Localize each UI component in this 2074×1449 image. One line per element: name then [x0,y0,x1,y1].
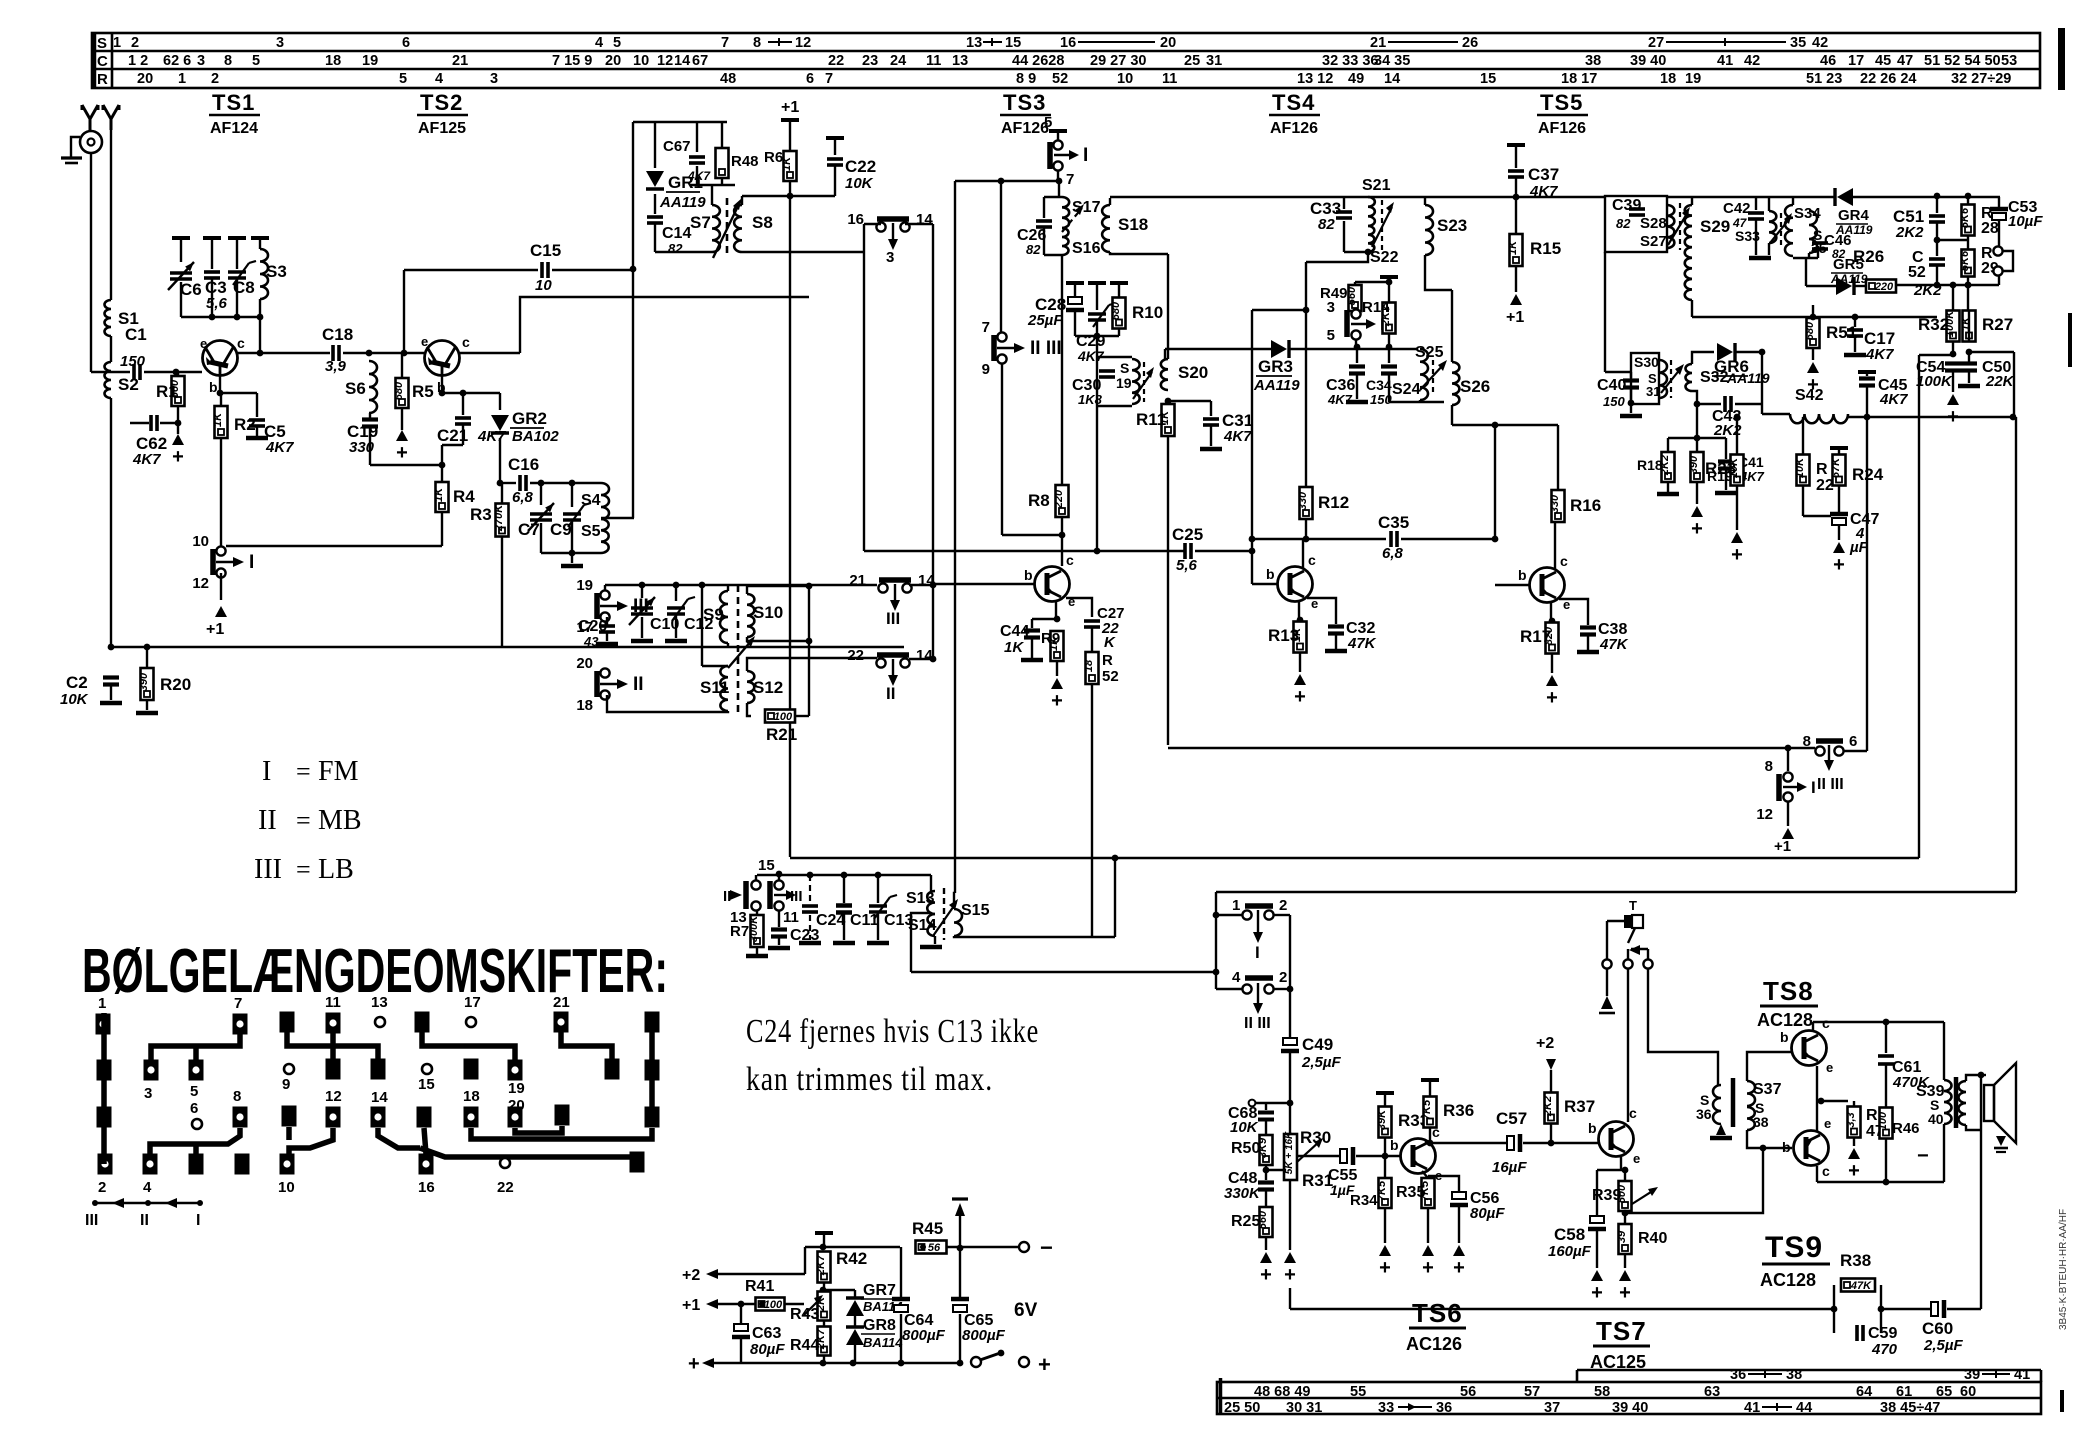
svg-text:+: + [1038,1352,1051,1377]
svg-text:42: 42 [1744,53,1760,69]
wire TS1 collector to C18 [237,352,330,354]
wire y539 left [1252,538,1386,540]
svg-text:S22: S22 [1370,249,1399,266]
capacitor C30 and coil S19 box [1097,356,1132,358]
wire GR2 top [499,393,501,410]
wire S1-S2 [110,336,112,362]
svg-text:S24: S24 [1392,381,1421,398]
switch contact 10/12 I [210,549,216,575]
wire wiper to C55 [1297,1155,1342,1157]
svg-text:b: b [1518,567,1527,583]
svg-text:38: 38 [1585,53,1601,69]
svg-text:S13: S13 [906,890,935,907]
wire S9 bottom [727,643,729,647]
wafer circle 17 [466,1017,476,1027]
wafer pad 2 [98,1154,113,1175]
wire sw9 down [1001,364,1003,535]
trimmer capacitor C8 [228,236,246,240]
wire box left [1918,355,1920,417]
svg-text:67: 67 [692,53,708,69]
svg-text:57: 57 [1524,1384,1540,1400]
svg-text:S18: S18 [1118,215,1148,234]
top table S row dashes [768,41,1786,43]
wire C5 bottom [256,426,258,436]
wire sw14 right [905,223,933,225]
coil S22 [1368,226,1374,252]
wire R2 down to switch 10 [220,438,222,546]
coil S6 [369,361,377,413]
svg-text:c: c [1629,1105,1637,1121]
svg-text:S33: S33 [1735,228,1760,244]
svg-text:AC128: AC128 [1757,1010,1813,1030]
node R4-C19 [439,462,446,469]
trimmer capacitor C29 [1088,281,1106,285]
wire GR2 node to C16 [500,482,516,484]
svg-text:32 27÷29: 32 27÷29 [1951,71,2011,87]
resistor R49 [1346,285,1362,311]
wire top rail [805,1246,900,1248]
svg-text:5,6: 5,6 [1176,557,1198,574]
wafer wire col1 [101,1013,107,1164]
svg-text:R1: R1 [156,382,178,401]
svg-text:5K + 16K: 5K + 16K [1284,1131,1295,1174]
svg-text:b: b [1780,1029,1789,1045]
page edge mark right [2058,28,2065,90]
wire to GR5 [1806,285,1836,287]
resistor R25 [1257,1207,1273,1237]
ground below R13 [1294,674,1306,685]
transistor TS1 [203,341,238,376]
svg-text:I: I [196,1212,200,1229]
svg-text:64: 64 [1856,1384,1872,1400]
node R20 top [144,644,151,651]
capacitor C49 electrolytic [1283,1038,1297,1045]
svg-text:18: 18 [463,1088,480,1105]
svg-text:S: S [97,35,107,52]
svg-text:60: 60 [1960,1384,1976,1400]
svg-text:5K6: 5K6 [1959,250,1971,271]
wire to C40 col [1605,371,1631,373]
tuning arrow S17 [1062,208,1082,232]
wafer pad 21 [554,1012,569,1033]
resistor R15 [1507,234,1523,266]
svg-text:15: 15 [1005,35,1021,51]
capacitor C51 [1936,197,1938,213]
wire S26 bottom [1451,405,1453,425]
node C21 top [460,390,467,397]
wire x1290 down [1289,915,1291,1038]
svg-text:b: b [1024,567,1033,583]
svg-text:S26: S26 [1460,377,1490,396]
wire S4-S5 tap [601,517,634,519]
wire R5 node up [403,270,405,353]
svg-text:µF: µF [1849,539,1869,556]
node R37 TS7 base [1548,1140,1555,1147]
svg-text:17: 17 [1848,53,1864,69]
svg-text:6: 6 [190,1100,198,1117]
wire S19 box to bus [1096,406,1098,551]
switch contact III [767,881,773,909]
svg-text:+2: +2 [682,1267,700,1284]
svg-text:33: 33 [1378,1400,1394,1416]
svg-text:7: 7 [234,995,242,1012]
svg-text:LB: LB [318,854,354,885]
resistor R38 [1841,1279,1875,1293]
svg-text:C60: C60 [1922,1319,1953,1338]
svg-text:14: 14 [916,211,933,228]
svg-text:330: 330 [1297,491,1309,510]
wire C1 to TS1 [144,371,202,373]
transformer core S7-S8 dashed [726,198,729,258]
wire R39 feedback to S38 [1625,1148,1763,1213]
svg-text:R27: R27 [1982,315,2013,334]
wire C15 to S7 block [552,269,633,271]
svg-text:1 2: 1 2 [128,53,148,69]
wire S8 top to R6 col [742,195,790,197]
svg-text:61: 61 [1896,1384,1912,1400]
svg-text:R12: R12 [1318,493,1349,512]
wire x1115 down [1114,858,1116,937]
svg-text:56: 56 [1460,1384,1476,1400]
wire to sw1 [1216,914,1242,916]
svg-text:S4: S4 [581,492,601,509]
capacitor C2 [103,678,119,685]
wire R4 to switch line [226,545,442,547]
capacitor C22 [826,136,844,140]
resistor R51 [1812,305,1814,317]
wafer wire right col [649,1031,655,1110]
wire TS2 base stem [441,375,443,393]
wafer pad row3 e [417,1107,432,1128]
wire down to GR5 [1805,258,1807,286]
svg-text:C39: C39 [1612,197,1641,214]
wire tank bottom tie [1344,251,1368,253]
ground +1 below sw12 [1782,828,1794,839]
wire R15 down [1515,266,1517,292]
coil S29 [1691,197,1693,205]
switch contact 15/13 II [743,881,749,909]
wafer pad right row2 [645,1060,660,1081]
capacitor C24 dashed [809,875,811,903]
svg-text:C37: C37 [1528,165,1559,184]
svg-text:+: + [1294,686,1306,708]
svg-text:e: e [1068,594,1075,609]
top reference table frame [92,33,2040,88]
svg-text:10µF: 10µF [2008,213,2043,230]
svg-text:51 52 54 50: 51 52 54 50 [1924,53,2001,69]
svg-text:55: 55 [1350,1384,1366,1400]
svg-text:25µF: 25µF [1027,312,1063,329]
svg-text:C24 fjernes hvis C13 ikke: C24 fjernes hvis C13 ikke [746,1013,1039,1050]
svg-text:b: b [209,379,218,395]
wire T box left [1607,920,1624,922]
switch contact 19/17 III [594,593,600,619]
svg-text:8: 8 [753,35,761,51]
wire S26 to R16 [1452,424,1558,426]
svg-text:R44: R44 [790,1337,819,1354]
wire y972 to switch block [911,971,1216,973]
wire R1 bottom [177,406,179,424]
wire to GR3 [1165,348,1271,350]
svg-text:20: 20 [1160,35,1176,51]
svg-text:19: 19 [1685,71,1701,87]
svg-text:38: 38 [1786,1367,1802,1383]
switch contact 8/6 II III [1816,738,1843,744]
wire C21 bottom [462,424,464,445]
wire C18 to TS2 [343,352,425,354]
wire R13 down [1299,653,1301,672]
wire to ground [177,423,179,434]
svg-text:680: 680 [393,381,405,400]
svg-text:R13: R13 [1268,626,1299,645]
wire sw2 right [1274,914,1290,916]
svg-text:−: − [1917,1145,1929,1167]
svg-text:36: 36 [1696,1106,1712,1122]
svg-text:80µF: 80µF [750,1341,785,1358]
svg-text:4K7: 4K7 [265,439,294,456]
capacitor C32 [1328,627,1344,634]
svg-text:+: + [688,1353,700,1375]
coil S5 [601,519,609,553]
svg-text:R37: R37 [1564,1097,1595,1116]
wafer pad right top [645,1012,660,1033]
svg-text:21: 21 [553,994,570,1011]
diode GR4 AA119 [1837,188,1853,206]
wire R4 top [441,445,443,483]
node sw8 tap [1785,745,1792,752]
svg-text:C20: C20 [578,618,607,635]
svg-text:II: II [140,1212,149,1229]
svg-text:28: 28 [1981,220,1999,237]
svg-text:S: S [1120,360,1129,376]
wafer wire 18 to right col [471,1128,652,1139]
capacitor C21 [455,418,471,424]
svg-text:R: R [1816,461,1828,478]
svg-text:S3: S3 [266,262,287,281]
wire tank bottom [541,552,601,554]
wire to TS5 base [1494,425,1496,539]
svg-text:+: + [172,446,184,468]
ground below R34 [1379,1245,1391,1256]
svg-text:7K5: 7K5 [1376,1180,1388,1201]
svg-text:AF126: AF126 [1538,120,1586,137]
resistor R6 [781,151,797,181]
svg-text:c: c [1066,552,1074,568]
wire R14 top [1388,282,1390,302]
wafer pad 14 [371,1107,386,1128]
svg-text:220: 220 [1053,489,1065,509]
svg-text:100: 100 [764,1299,783,1311]
supply T-bar [815,1231,833,1235]
svg-text:58: 58 [1594,1384,1610,1400]
wire S12 bottom [747,703,751,716]
wafer pad col1 row2 [97,1060,112,1081]
wire tank to R12 col [1306,252,1368,262]
svg-text:43: 43 [583,634,599,649]
wire C37 to R15 [1515,178,1517,234]
node x633-C15 [630,266,637,273]
antenna symbol 2 [103,105,119,130]
transistor TS8 [1792,1031,1827,1066]
svg-text:20: 20 [576,655,593,672]
svg-text:48 68 49: 48 68 49 [1254,1384,1310,1400]
ground below R23 [1731,532,1743,543]
ground below R15 [1510,294,1522,305]
wire tank bottom tie [181,316,260,318]
wire R12 bottom [1305,519,1307,539]
capacitor C31 [1203,419,1219,425]
svg-text:I: I [249,552,254,573]
resistor R28 [1959,205,1975,236]
svg-text:R40: R40 [1638,1230,1667,1247]
resistor R46 [1877,1108,1893,1139]
svg-text:31: 31 [1646,384,1660,399]
wire C5 top [256,393,258,417]
svg-text:R45: R45 [912,1219,943,1238]
svg-text:R25: R25 [1231,1213,1260,1230]
node TS3 top [1056,178,1063,185]
wafer circle 6 [192,1119,202,1129]
wire C62 right [160,422,178,424]
capacitor C5 [249,420,265,426]
svg-text:III: III [254,854,282,885]
svg-text:MB: MB [318,805,362,836]
wire x1001 down to sw [1000,181,1002,333]
wire box down to S30 [1604,252,1606,372]
svg-text:21: 21 [452,53,468,69]
node S6 top [366,350,373,357]
wire y892 long [1216,891,2016,893]
wire +1 to R6 [789,120,791,151]
capacitor C60 electrolytic [1931,1302,1938,1316]
wafer pad row3 g [555,1105,570,1126]
wire TS4 collector stem [1302,539,1304,568]
svg-text:S6: S6 [345,379,366,398]
svg-text:680: 680 [1804,321,1816,340]
svg-text:1: 1 [1232,897,1240,914]
wafer pad 19 [508,1060,523,1081]
wafer pad 16 [419,1154,434,1175]
svg-text:12: 12 [325,1088,342,1105]
chassis ground speaker [1996,1136,2006,1146]
svg-text:18: 18 [576,697,593,714]
svg-text:6,8: 6,8 [1382,545,1404,562]
svg-text:2K2: 2K2 [1542,1096,1554,1117]
svg-text:12: 12 [795,35,811,51]
ground bar C5 [246,436,268,441]
svg-text:I: I [262,756,271,787]
svg-text:S27: S27 [1640,233,1667,250]
capacitor C11 [843,875,845,903]
node R1-C62 [175,420,182,427]
svg-text:e: e [421,334,428,349]
coil S10 [747,594,754,637]
coil S16 [1062,228,1069,255]
svg-text:e: e [200,336,207,351]
svg-text:2,5µF: 2,5µF [1923,1337,1963,1354]
svg-text:16: 16 [847,211,864,228]
svg-text:41: 41 [1744,1400,1760,1416]
wire TS3 emitter stem [1055,600,1057,619]
svg-text:+: + [1422,1257,1434,1279]
svg-text:S23: S23 [1437,216,1467,235]
svg-text:AF124: AF124 [210,120,258,137]
box S30 S31 [1631,353,1659,404]
svg-text:7: 7 [825,71,833,87]
wire TS4 emitter stem [1298,600,1300,620]
svg-text:+1: +1 [682,1297,700,1314]
svg-text:42: 42 [1812,35,1828,51]
capacitor C59 [1857,1325,1863,1341]
svg-text:6,8: 6,8 [512,489,534,506]
svg-text:C: C [97,53,108,70]
capacitor C47 electrolytic [1830,512,1848,517]
wafer pad col12 row2 [371,1059,386,1080]
wire sw6 up to bus [1866,417,1868,751]
ground bar S36 [1710,1136,1732,1141]
svg-text:12: 12 [1756,806,1773,823]
wire net14 vertical [932,224,934,659]
svg-text:10: 10 [278,1179,295,1196]
trimmer capacitor C12 [673,582,680,589]
wire TS6 collector bus [1430,1142,1509,1144]
svg-text:C40: C40 [1597,377,1626,394]
svg-text:51 23: 51 23 [1806,71,1842,87]
svg-text:GR8: GR8 [863,1317,896,1334]
transistor TS3 [1035,567,1070,602]
coil S26 [1452,362,1459,405]
svg-text:C2: C2 [66,673,88,692]
wire C25 bus left [864,550,1184,552]
svg-text:II: II [258,805,277,836]
node TS2 base [439,390,446,397]
svg-text:c: c [462,334,470,350]
svg-text:18 17: 18 17 [1561,71,1597,87]
wire sw22 to net14 [909,658,933,660]
svg-text:4K7: 4K7 [132,451,161,468]
svg-text:R11: R11 [1136,410,1166,429]
capacitor C19 [362,420,378,427]
wafer wire 12 to 10 [289,1128,333,1154]
svg-text:560: 560 [1346,286,1358,305]
transformer core S9-S10 dashed [737,585,740,712]
svg-text:2: 2 [1279,897,1287,914]
wire top line right segment [1668,196,1836,198]
svg-text:39K: 39K [1376,1109,1388,1130]
svg-text:R51: R51 [1826,323,1857,342]
wire S29 bottom [1691,300,1693,317]
wire R6 to C22 [790,195,835,197]
ground below R31 [1284,1252,1296,1263]
power switch and + terminal right [971,1357,981,1367]
chassis ground left contact [1601,996,1613,1009]
svg-text:3B45·K·BTEUH·HR·AA/HF: 3B45·K·BTEUH·HR·AA/HF [2058,1209,2069,1330]
wire switch 12 down [220,573,222,600]
svg-text:7K5: 7K5 [1421,1099,1433,1120]
svg-text:11: 11 [325,994,341,1011]
svg-text:1K: 1K [212,412,224,427]
svg-text:=: = [296,757,311,786]
core S21 dashed and arrow [1381,200,1383,250]
capacitor C53 electrolytic [1998,197,2000,208]
svg-text:S14: S14 [908,917,937,934]
wire jack to line [1998,276,2000,285]
svg-text:GR4: GR4 [1838,207,1870,224]
svg-text:150: 150 [120,353,146,370]
svg-text:18: 18 [1660,71,1676,87]
capacitor C52 [1936,240,1938,256]
coil S9 [727,585,729,591]
